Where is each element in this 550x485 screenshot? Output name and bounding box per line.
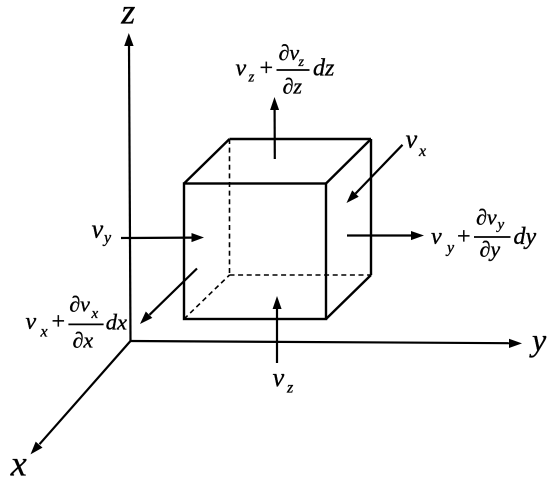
svg-text:∂v: ∂v xyxy=(69,292,90,317)
formula vy + dvy/dy dy (right) xyxy=(431,205,537,262)
svg-text:+: + xyxy=(258,56,274,82)
svg-text:x: x xyxy=(91,306,99,322)
cube bottom-right slant edge xyxy=(326,275,371,319)
formula vz + dvz/dz dz (top) xyxy=(236,40,336,99)
svg-text:dy: dy xyxy=(514,224,537,250)
cube hidden bottom-left slant edge (dashed) xyxy=(184,275,230,319)
svg-text:dx: dx xyxy=(106,310,127,335)
arrow vx (upper right, pointing down-left into right face) xyxy=(347,145,403,203)
svg-text:v: v xyxy=(431,224,442,250)
cube front face xyxy=(184,184,326,320)
svg-text:+: + xyxy=(456,224,472,250)
svg-text:∂z: ∂z xyxy=(283,74,303,99)
arrow vz+dvz/dz (top, pointing up out of top face) xyxy=(270,97,279,159)
svg-text:dz: dz xyxy=(313,56,335,82)
cube top-right slant edge xyxy=(326,139,371,184)
arrow vx+dvx/dx (lower left, pointing down-left out of left face) xyxy=(140,269,197,325)
svg-text:v: v xyxy=(26,309,37,335)
svg-text:y: y xyxy=(529,322,547,358)
cube top-left slant edge xyxy=(184,139,230,184)
svg-text:∂x: ∂x xyxy=(73,328,94,353)
formula vx + dvx/dx dx (left) xyxy=(26,292,128,353)
svg-text:y: y xyxy=(102,229,112,246)
y-axis xyxy=(131,339,523,348)
svg-text:z: z xyxy=(248,69,255,85)
svg-text:x: x xyxy=(40,324,48,341)
label vy xyxy=(92,215,112,247)
label vx xyxy=(406,124,427,160)
svg-text:v: v xyxy=(236,56,247,82)
svg-text:v: v xyxy=(273,363,285,392)
label vz xyxy=(273,363,294,397)
svg-text:z: z xyxy=(120,0,135,32)
arrow vz (bottom, pointing up into bottom face) xyxy=(273,296,282,363)
svg-text:+: + xyxy=(50,309,66,335)
cube hidden bottom back edge (dashed) xyxy=(230,274,372,276)
cube back-right vertical edge xyxy=(370,139,372,275)
cube top back edge xyxy=(230,138,372,140)
x-axis xyxy=(31,341,131,454)
svg-text:z: z xyxy=(286,380,294,397)
z-axis xyxy=(124,33,133,341)
svg-text:y: y xyxy=(445,240,455,257)
svg-text:∂y: ∂y xyxy=(480,237,501,262)
arrow vy (left, pointing right into left face) xyxy=(121,233,204,242)
arrow vy+dvy/dy (right, pointing right out of right face) xyxy=(347,231,424,240)
svg-text:v: v xyxy=(92,215,104,244)
svg-text:∂v: ∂v xyxy=(279,40,300,65)
svg-text:∂v: ∂v xyxy=(476,205,497,230)
svg-text:x: x xyxy=(418,143,426,160)
svg-text:y: y xyxy=(496,217,505,233)
svg-text:x: x xyxy=(10,444,27,484)
svg-text:z: z xyxy=(298,55,305,70)
cube hidden back-left vertical edge (dashed) xyxy=(229,139,231,275)
svg-text:v: v xyxy=(406,124,418,153)
